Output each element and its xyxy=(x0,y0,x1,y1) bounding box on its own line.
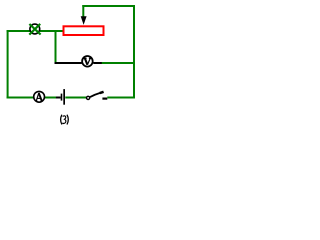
wire: bottom-left green xyxy=(7,97,34,99)
wire: battery left black stub xyxy=(56,97,61,99)
switch S1 xyxy=(87,92,108,100)
voltmeter U1 xyxy=(82,56,93,67)
wire: voltmeter left black xyxy=(55,62,82,64)
wire: ammeter to battery green xyxy=(45,97,57,99)
wire: switch to right corner green xyxy=(107,97,135,99)
wire: wiper stem vertical xyxy=(82,5,84,18)
wire: right vertical xyxy=(133,5,135,99)
label (3) xyxy=(61,115,69,125)
battery B1 xyxy=(61,89,65,105)
wire: top-right horizontal xyxy=(82,5,135,7)
wire: top-left horizontal (lamp row) xyxy=(7,30,30,32)
wire: lamp to rheostat xyxy=(40,30,64,32)
wire: battery to switch green xyxy=(65,97,86,99)
rheostat R1 xyxy=(64,26,104,35)
lamp L1 xyxy=(29,24,40,35)
wire: left vertical xyxy=(7,30,9,99)
ammeter U2 xyxy=(34,91,45,102)
wire: voltmeter right black stub xyxy=(93,62,102,64)
rheostat wiper arrow xyxy=(81,16,87,25)
wire: voltmeter right green xyxy=(102,62,135,64)
wire: voltmeter branch vertical xyxy=(55,30,57,62)
